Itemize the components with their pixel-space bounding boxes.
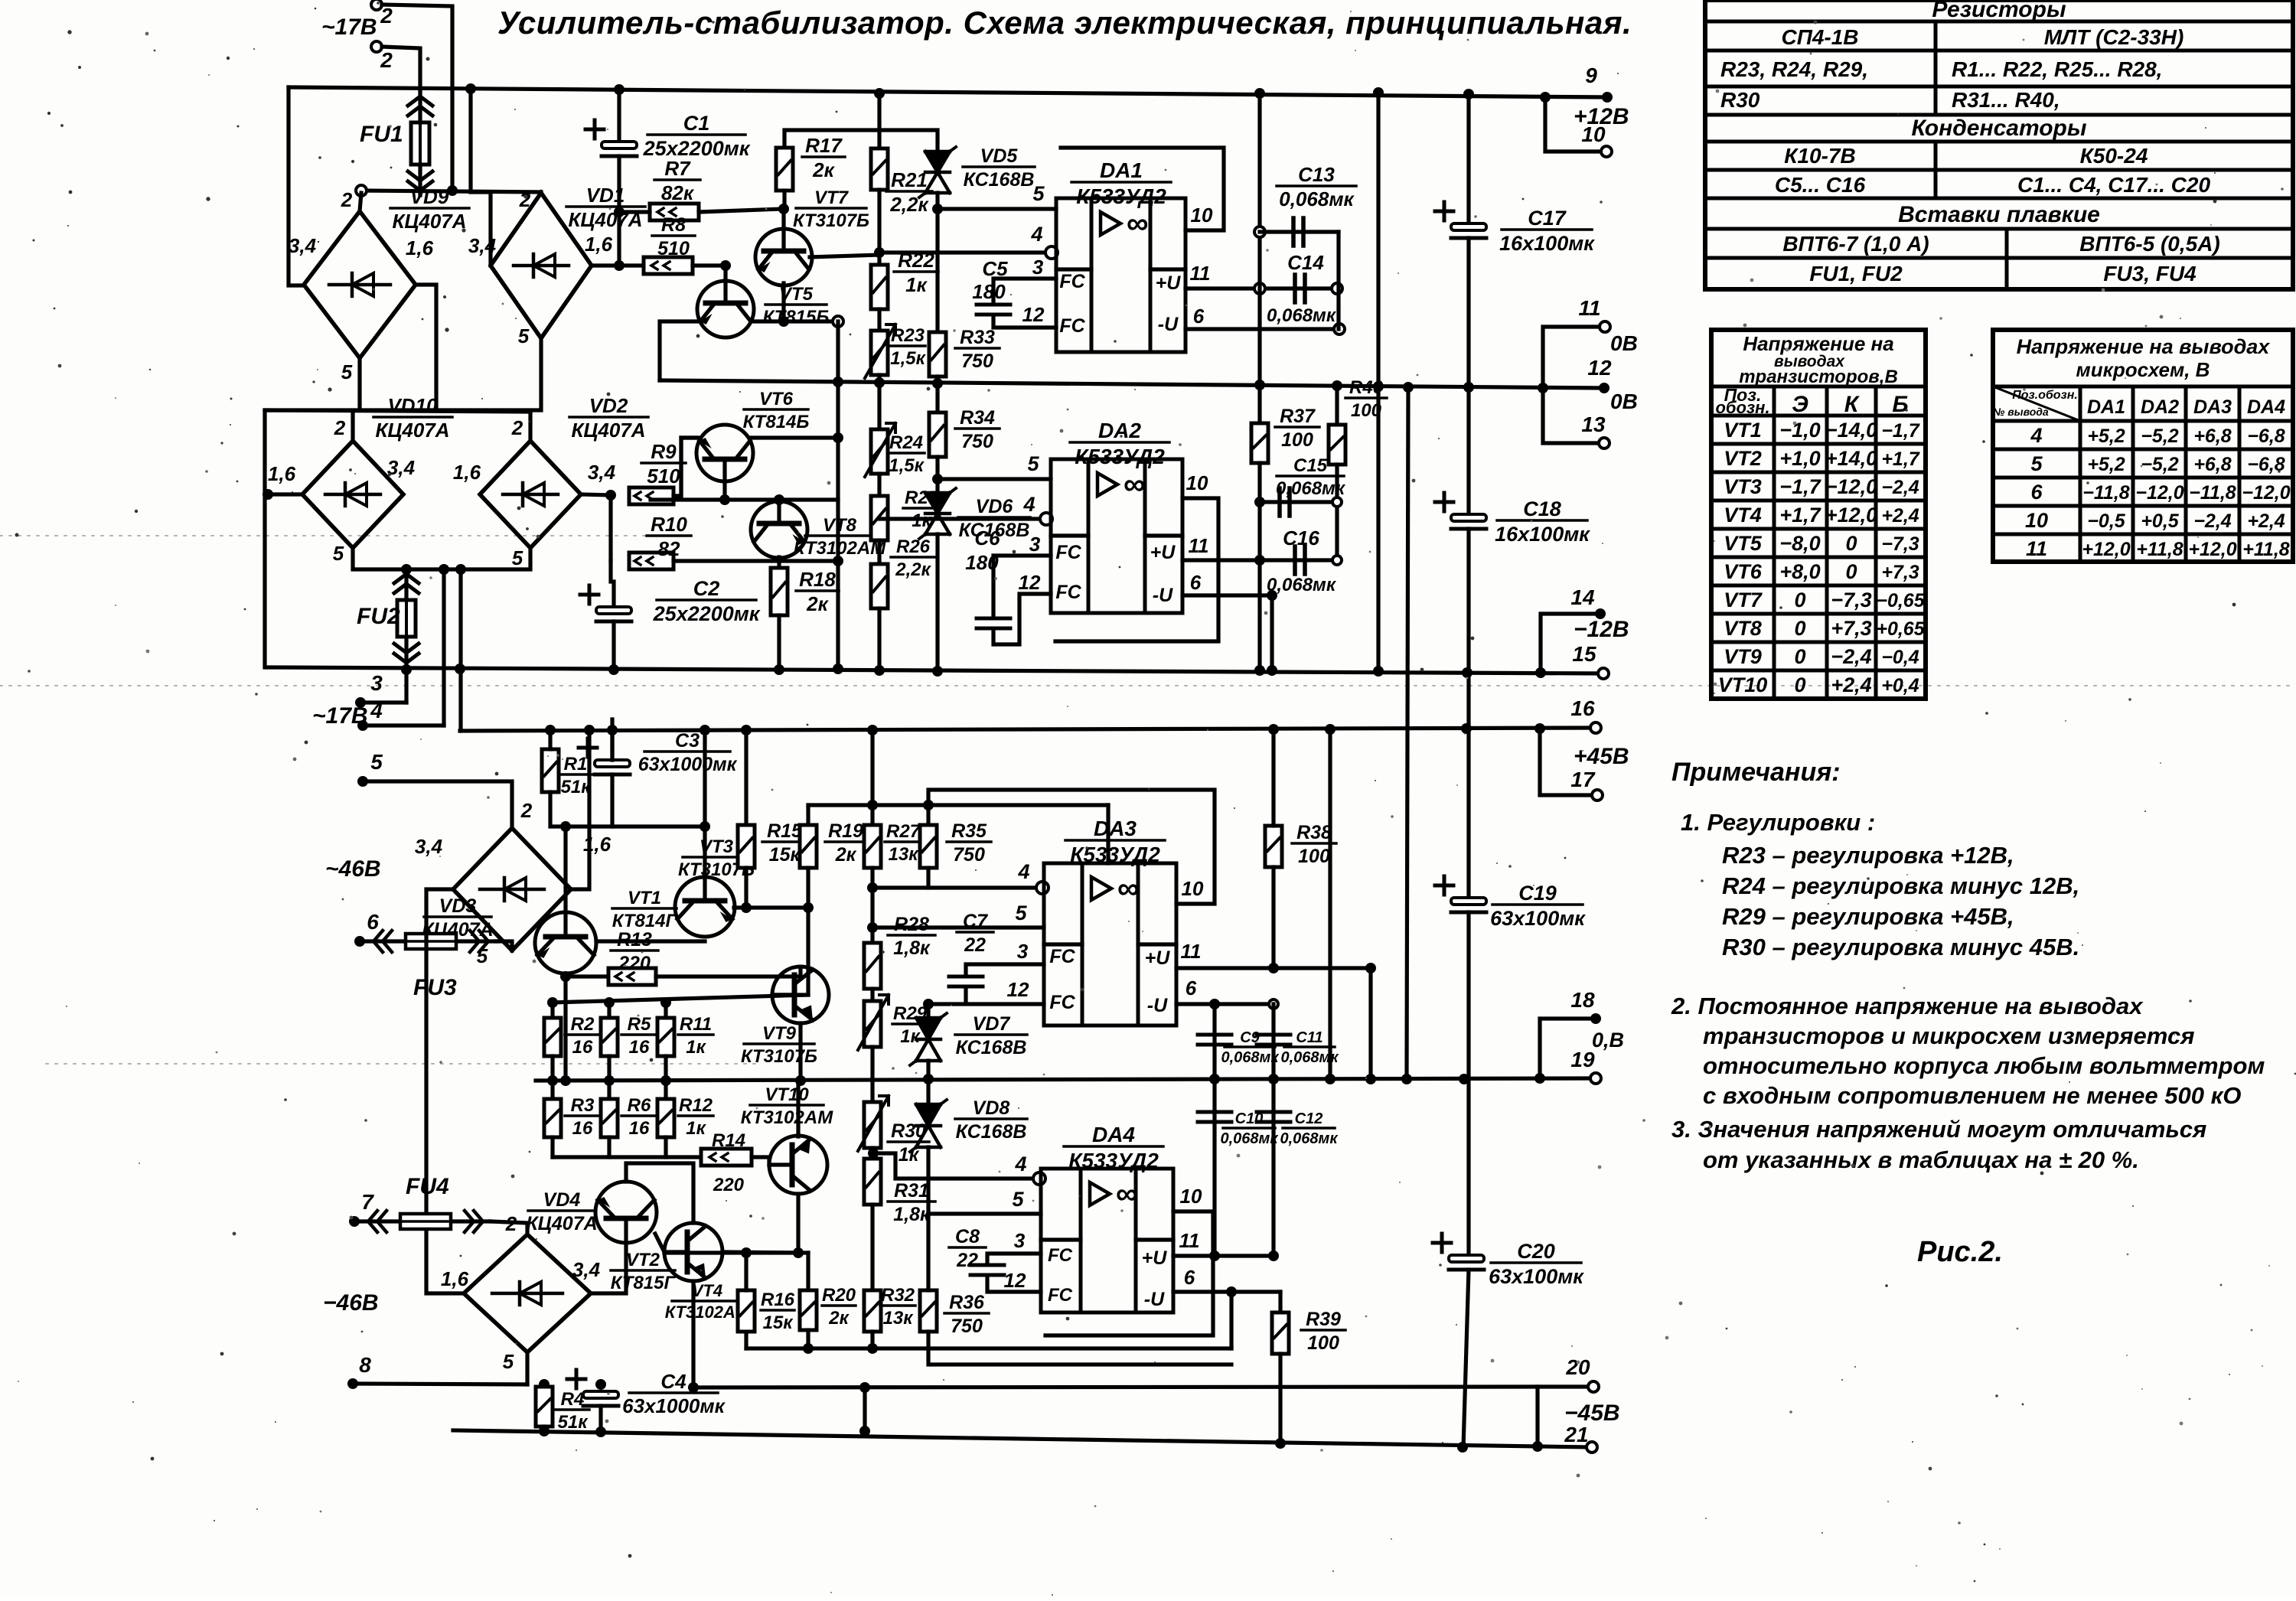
- junction: [833, 377, 843, 387]
- junction: [539, 1379, 550, 1390]
- svg-text:Напряжение на выводах: Напряжение на выводах: [2017, 335, 2271, 358]
- wire R24-R25: [877, 474, 881, 496]
- svg-text:0В: 0В: [1610, 331, 1638, 355]
- label 0,068мк (C14): [1267, 305, 1337, 326]
- wire VT6 right lead: [751, 435, 838, 439]
- svg-text:4: 4: [1030, 223, 1042, 246]
- svg-text:2. Постоянное напряжение на: 2. Постоянное напряжение на выводах: [1671, 993, 2144, 1019]
- svg-text:1,5к: 1,5к: [890, 348, 926, 369]
- label FC (DA3): [1049, 992, 1075, 1013]
- junction: [1209, 1074, 1220, 1084]
- svg-text:R19: R19: [828, 820, 863, 842]
- wire pin4 line DA2: [879, 517, 1042, 520]
- junction: [774, 494, 784, 505]
- svg-text:2: 2: [334, 416, 346, 439]
- junction: [932, 378, 943, 389]
- junction: [700, 821, 710, 832]
- capacitor C8: [970, 1265, 1004, 1275]
- label C11 0,068мк: [1281, 1029, 1339, 1066]
- svg-text:0,068мк: 0,068мк: [1280, 1130, 1339, 1147]
- junction: [439, 564, 449, 575]
- svg-text:C19: C19: [1518, 882, 1557, 905]
- svg-text:1к: 1к: [905, 273, 928, 296]
- resistor R5: [601, 1018, 618, 1056]
- wire R12 top: [664, 1081, 667, 1099]
- svg-text:16: 16: [572, 1037, 593, 1058]
- svg-text:+U: +U: [1156, 272, 1182, 294]
- junction: [932, 474, 943, 484]
- label R11 1к: [678, 1014, 713, 1058]
- label VD9 КЦ407А: [390, 185, 469, 233]
- terminal 3: [355, 697, 366, 708]
- svg-text:0,068мк: 0,068мк: [1221, 1130, 1279, 1147]
- wire column R21: [877, 93, 881, 148]
- svg-text:4: 4: [1017, 860, 1029, 883]
- svg-text:0,В: 0,В: [1592, 1029, 1624, 1052]
- label R7 82к: [654, 157, 700, 204]
- junction: [923, 999, 934, 1009]
- terminal 20: [1588, 1381, 1599, 1392]
- svg-text:0,068мк: 0,068мк: [1221, 1049, 1280, 1066]
- label 18: [1570, 988, 1595, 1012]
- label 2 (VD2): [511, 416, 523, 439]
- resistor R13: [608, 968, 656, 985]
- svg-text:КТ815Г: КТ815Г: [611, 1273, 677, 1293]
- capacitor C16: [1295, 546, 1305, 574]
- junction: [867, 922, 878, 933]
- svg-text:МЛТ (С2-33Н): МЛТ (С2-33Н): [2044, 25, 2184, 49]
- svg-text:3: 3: [1017, 940, 1029, 963]
- label R25 1к: [903, 487, 940, 531]
- label ~17В: [321, 15, 377, 40]
- resistor R11: [657, 1018, 674, 1056]
- junction: [545, 725, 556, 735]
- wire -45V bus: [453, 1430, 1592, 1447]
- capacitor C14: [1295, 275, 1305, 302]
- svg-text:от указанных в таблицах на: от указанных в таблицах на ± 20 %.: [1703, 1146, 2139, 1173]
- svg-text:2: 2: [380, 4, 393, 28]
- svg-text:−7,3: −7,3: [1881, 533, 1919, 555]
- label VDA КЦ407А: [526, 1189, 597, 1234]
- wire R20 bottom: [806, 1330, 810, 1348]
- svg-text:19: 19: [1570, 1048, 1595, 1071]
- label 10 (DA3): [1182, 877, 1204, 900]
- wire VD2 top stub: [528, 412, 532, 441]
- wire pin4 line DA4: [873, 1153, 1035, 1179]
- junction: [867, 725, 878, 735]
- junction: [1268, 1074, 1279, 1084]
- label C13 0,068мк: [1277, 163, 1356, 210]
- junction: [660, 997, 671, 1008]
- terminal 11: [1600, 321, 1610, 332]
- wire pin11 line DA2: [1182, 558, 1260, 562]
- label 3,4 (VD2): [588, 461, 616, 484]
- svg-text:82к: 82к: [661, 181, 695, 204]
- svg-text:63х1000мк: 63х1000мк: [622, 1394, 726, 1417]
- junction: [660, 1075, 671, 1086]
- wire VD2 right corner line: [581, 494, 611, 495]
- junction: [1254, 88, 1265, 99]
- label VT1 КТ814Г: [612, 888, 678, 931]
- junction: [1463, 382, 1474, 393]
- junction: [1268, 963, 1279, 973]
- wire D column top: [926, 805, 930, 825]
- svg-text:R29 – регулировка +45В,: R29 – регулировка +45В,: [1722, 903, 2014, 930]
- svg-text:10: 10: [1182, 877, 1204, 900]
- label R26 2,2к: [891, 536, 935, 580]
- label C6 180: [965, 527, 1000, 574]
- junction: [560, 971, 571, 982]
- wire VT7 emitter: [781, 283, 785, 321]
- svg-text:DA3: DA3: [1094, 817, 1137, 840]
- label DA4 К533УД2: [1064, 1123, 1163, 1172]
- svg-text:R6: R6: [628, 1095, 651, 1116]
- label R32 13к: [880, 1285, 915, 1329]
- wire pin12 line DA4: [987, 1277, 1041, 1292]
- wire vert x1646: [1257, 93, 1261, 423]
- junction: [604, 1075, 615, 1086]
- wire R29-R30: [870, 1047, 874, 1102]
- svg-text:2,2к: 2,2к: [895, 559, 931, 580]
- label -U (DA4): [1144, 1289, 1165, 1310]
- svg-text:+6,8: +6,8: [2193, 426, 2231, 447]
- wire VD5 bottom: [935, 193, 939, 209]
- terminal 4: [357, 720, 368, 731]
- resistor R37: [1251, 423, 1268, 463]
- wire VD1 right to R8 line: [592, 263, 644, 267]
- capacitor C3: [579, 739, 630, 774]
- wire VT6 base down: [722, 481, 726, 500]
- wire VD1 left frame: [471, 89, 491, 266]
- transistor VT6: [696, 425, 753, 481]
- junction: [803, 1343, 814, 1354]
- label 5 (VD9): [341, 360, 353, 383]
- svg-text:C17: C17: [1528, 207, 1567, 230]
- wire R18 bottom: [777, 615, 781, 670]
- svg-text:2к: 2к: [812, 158, 835, 181]
- label 6 (DA1): [1193, 305, 1205, 328]
- svg-text:+11,8: +11,8: [2242, 539, 2289, 560]
- label C20 63x100мк: [1489, 1240, 1584, 1288]
- resistor R40: [1329, 425, 1345, 465]
- svg-text:КС168В: КС168В: [956, 1121, 1027, 1143]
- svg-text:13: 13: [1581, 412, 1606, 436]
- divider U cells DA3: [1138, 942, 1176, 946]
- label C5 180: [972, 257, 1008, 303]
- label R24 1,5к: [888, 432, 925, 476]
- label C17 16x100мк: [1499, 207, 1595, 255]
- svg-text:1. Регулировки :: 1. Регулировки :: [1681, 809, 1875, 836]
- zener VD5: [919, 147, 956, 197]
- wire R38 top: [1271, 729, 1275, 826]
- wire VD6 bottom: [935, 534, 939, 670]
- wire terminal 8 line: [353, 1384, 527, 1384]
- junction: [1373, 87, 1384, 98]
- junction: [547, 997, 558, 1008]
- wire VD3 right up to +45 rail: [571, 731, 589, 889]
- pin4 connector circle DA4: [1033, 1172, 1045, 1185]
- wire R14 right to VT10 base: [752, 1157, 769, 1165]
- wire R26 bottom: [877, 608, 881, 670]
- wire C4 bottom: [598, 1406, 602, 1431]
- resistor R22: [871, 265, 888, 309]
- svg-text:VT5: VT5: [1724, 532, 1763, 555]
- wire VD7 top: [926, 1004, 930, 1018]
- svg-text:-U: -U: [1158, 314, 1179, 335]
- scan fold line: [46, 1063, 758, 1065]
- label 3: [370, 671, 383, 695]
- wire from terminal 2 to vertical: [382, 5, 452, 191]
- terminal 17: [1592, 790, 1603, 800]
- resistor R30 (trimmer): [858, 1096, 889, 1151]
- label VT5 КТ815Б: [763, 284, 830, 328]
- junction: [859, 1382, 870, 1393]
- junction: [868, 1148, 879, 1159]
- wire R38 bottom: [1271, 867, 1275, 968]
- wire rail A y1813: [693, 1387, 1538, 1387]
- label 2: [380, 4, 393, 28]
- junction: [595, 1427, 606, 1437]
- svg-text:R8: R8: [661, 214, 686, 236]
- table IC voltages text: [1992, 335, 2290, 560]
- junction: [1365, 1074, 1376, 1084]
- resistor R15: [738, 825, 755, 868]
- wire R17 top line: [784, 130, 938, 152]
- junction: [719, 494, 730, 505]
- svg-text:КЦ407А: КЦ407А: [526, 1213, 597, 1234]
- svg-text:12: 12: [1587, 356, 1612, 380]
- wire R13 line: [566, 974, 608, 978]
- divider U cells DA1: [1150, 267, 1186, 271]
- label 1,6 (VD10): [268, 462, 296, 485]
- resistor R17: [776, 148, 793, 191]
- wire vert x1738: [1328, 729, 1332, 1079]
- svg-text:VD3: VD3: [439, 895, 477, 917]
- junction: [1275, 1438, 1286, 1449]
- svg-text:−2,4: −2,4: [1881, 477, 1919, 498]
- label 4: [370, 699, 383, 722]
- svg-text:0: 0: [1845, 532, 1857, 555]
- wire node y1080: [550, 792, 705, 827]
- wire VT3 base right: [734, 905, 808, 909]
- svg-text:VD8: VD8: [973, 1097, 1010, 1119]
- label VT8 КТ3102АМ: [794, 515, 886, 559]
- notes text: [1671, 758, 2265, 1173]
- svg-text:К533УД2: К533УД2: [1070, 843, 1160, 866]
- junction: [833, 556, 843, 566]
- svg-text:11: 11: [1189, 534, 1209, 557]
- label R5 16: [621, 1014, 657, 1058]
- svg-text:−1,7: −1,7: [1881, 420, 1919, 442]
- svg-text:R4: R4: [561, 1389, 585, 1410]
- svg-text:750: 750: [951, 1316, 983, 1337]
- svg-text:0,068мк: 0,068мк: [1279, 187, 1355, 210]
- svg-text:0,068мк: 0,068мк: [1267, 305, 1337, 326]
- transistor VT1: [535, 912, 596, 973]
- wire R2 bottom: [550, 1056, 554, 1081]
- wire R4 bottom: [542, 1427, 546, 1432]
- svg-text:3: 3: [1014, 1229, 1026, 1252]
- wire pin11 line DA4: [1173, 1254, 1274, 1257]
- capacitor C13: [1293, 218, 1303, 246]
- divider U cells DA4: [1136, 1237, 1173, 1241]
- label -46В: [323, 1290, 379, 1316]
- wire R19 bottom: [806, 868, 810, 908]
- svg-text:2к: 2к: [828, 1308, 850, 1329]
- wire DA3 flag (pin10): [928, 790, 1215, 904]
- junction: [833, 432, 843, 443]
- terminal 10: [1601, 146, 1612, 157]
- junction: [795, 1075, 806, 1086]
- svg-text:1,8к: 1,8к: [893, 1204, 931, 1225]
- svg-text:R2: R2: [571, 1014, 595, 1035]
- node connector: [1332, 283, 1342, 294]
- svg-text:+0,4: +0,4: [1881, 675, 1919, 696]
- svg-text:R1: R1: [564, 754, 588, 774]
- terminal 2 (upper): [371, 0, 382, 10]
- terminal 7: [349, 1216, 360, 1227]
- wire VT5 base up: [723, 266, 727, 282]
- label 4 (DA3 pin): [1017, 860, 1029, 883]
- wire VD9 left frame: [289, 87, 304, 285]
- label R28 1,8к: [888, 914, 935, 959]
- resistor R29 (trimmer): [858, 995, 889, 1050]
- svg-text:6: 6: [1184, 1266, 1195, 1289]
- label VT3 КТ3107Б: [678, 836, 755, 880]
- svg-text:+U: +U: [1142, 1247, 1168, 1269]
- wire pin6 line DA4: [1173, 1290, 1280, 1293]
- svg-text:750: 750: [953, 844, 985, 866]
- bridge VD3: [453, 828, 571, 950]
- label 10 (DA1): [1191, 204, 1213, 227]
- svg-text:К533УД2: К533УД2: [1075, 445, 1165, 468]
- wire R20 top: [806, 1253, 810, 1290]
- svg-text:C5: C5: [982, 257, 1008, 280]
- label R21 2,2к: [886, 168, 932, 216]
- svg-text:−7,3: −7,3: [1831, 589, 1871, 611]
- svg-text:C8: C8: [955, 1226, 980, 1247]
- label 13: [1581, 412, 1606, 436]
- label R19 2к: [825, 820, 866, 866]
- svg-text:11: 11: [2026, 537, 2047, 560]
- svg-text:КЦ407А: КЦ407А: [392, 210, 466, 233]
- node connector: [833, 316, 843, 327]
- junction: [539, 1426, 550, 1436]
- svg-text:Поз.обозн.: Поз.обозн.: [2012, 389, 2078, 402]
- label FU1: [360, 122, 403, 147]
- wire pin3 line DA2: [993, 556, 1051, 617]
- wire VT1 base: [596, 939, 705, 943]
- label DA1 К533УД2: [1071, 158, 1171, 208]
- svg-text:DA2: DA2: [1098, 419, 1141, 442]
- junction: [1254, 665, 1265, 676]
- wire E column x1587: [1212, 1004, 1216, 1256]
- node connector: [1254, 227, 1265, 237]
- svg-text:DA2: DA2: [2141, 396, 2179, 418]
- label R13 220: [611, 929, 658, 974]
- svg-text:−0,65: −0,65: [1876, 590, 1925, 611]
- wire VD3 left to VD4 left: [426, 889, 464, 1293]
- svg-text:5: 5: [341, 360, 353, 383]
- label R6 16: [621, 1095, 657, 1139]
- junction: [1268, 1250, 1279, 1261]
- wire R13 right to VT9: [656, 967, 801, 977]
- svg-text:FU3, FU4: FU3, FU4: [2103, 262, 2197, 285]
- junction: [1401, 1074, 1412, 1084]
- label -U (DA3): [1147, 995, 1168, 1016]
- junction: [867, 800, 878, 810]
- resistor R14: [701, 1149, 752, 1166]
- junction: [923, 1074, 934, 1084]
- junction: [1457, 1442, 1468, 1453]
- label R31 1,8к: [888, 1180, 935, 1225]
- svg-text:R27: R27: [886, 821, 921, 842]
- wire R39 top: [1278, 1292, 1282, 1312]
- zener VD8: [910, 1100, 947, 1152]
- svg-text:VT3: VT3: [1724, 475, 1762, 498]
- transistor VT3: [675, 877, 735, 937]
- wire FU4 to VD4: [491, 1221, 527, 1234]
- wire pin11 line DA3: [1176, 966, 1371, 970]
- svg-text:VT9: VT9: [762, 1023, 797, 1044]
- resistor R33: [929, 332, 946, 377]
- svg-text:6: 6: [1186, 977, 1197, 999]
- svg-text:12: 12: [1004, 1269, 1026, 1292]
- svg-text:+2,4: +2,4: [1831, 673, 1871, 696]
- label 5 (VD10): [333, 542, 344, 565]
- svg-text:R38: R38: [1296, 822, 1332, 843]
- svg-text:+1,0: +1,0: [1779, 447, 1820, 470]
- svg-text:5: 5: [518, 324, 530, 347]
- svg-text:6: 6: [1190, 571, 1202, 594]
- junction: [1373, 666, 1384, 677]
- label R33 750: [955, 327, 1000, 372]
- svg-text:КС168В: КС168В: [964, 169, 1035, 191]
- capacitor C10: [1198, 1112, 1231, 1122]
- label C8 22: [949, 1226, 986, 1271]
- svg-text:C15: C15: [1293, 455, 1328, 476]
- label -U (DA1): [1158, 314, 1179, 335]
- svg-text:~17В: ~17В: [321, 15, 377, 40]
- wire R28-R29: [870, 989, 874, 1001]
- label 3,4 (VD4): [572, 1258, 601, 1281]
- junction: [263, 489, 273, 500]
- svg-text:+1,7: +1,7: [1779, 504, 1821, 527]
- svg-text:обозн.: обозн.: [1715, 398, 1769, 417]
- svg-text:1к: 1к: [686, 1037, 706, 1058]
- label 5 (DA2 pin): [1027, 452, 1039, 475]
- label VT10 КТ3102АМ: [741, 1084, 833, 1128]
- svg-text:51к: 51к: [558, 1412, 589, 1433]
- svg-text:FU1: FU1: [360, 122, 403, 147]
- terminal 2 (lower): [371, 41, 382, 52]
- capacitor C17: [1435, 202, 1486, 238]
- label R1 51к: [559, 754, 592, 797]
- svg-text:1,6: 1,6: [406, 236, 434, 259]
- svg-text:10: 10: [1581, 122, 1606, 146]
- wire R15 top: [744, 731, 748, 825]
- label +U (DA2): [1150, 542, 1176, 563]
- svg-text:C14: C14: [1287, 251, 1324, 274]
- svg-text:0: 0: [1845, 560, 1857, 583]
- wire VT4 base link: [655, 1234, 664, 1252]
- svg-text:КТ3102АМ: КТ3102АМ: [741, 1107, 833, 1128]
- wire R3 bottom: [550, 1137, 554, 1157]
- pin4 connector circle DA3: [1036, 882, 1049, 894]
- svg-text:12: 12: [1019, 571, 1041, 594]
- svg-text:C18: C18: [1523, 497, 1561, 520]
- wire stub: [863, 1387, 866, 1431]
